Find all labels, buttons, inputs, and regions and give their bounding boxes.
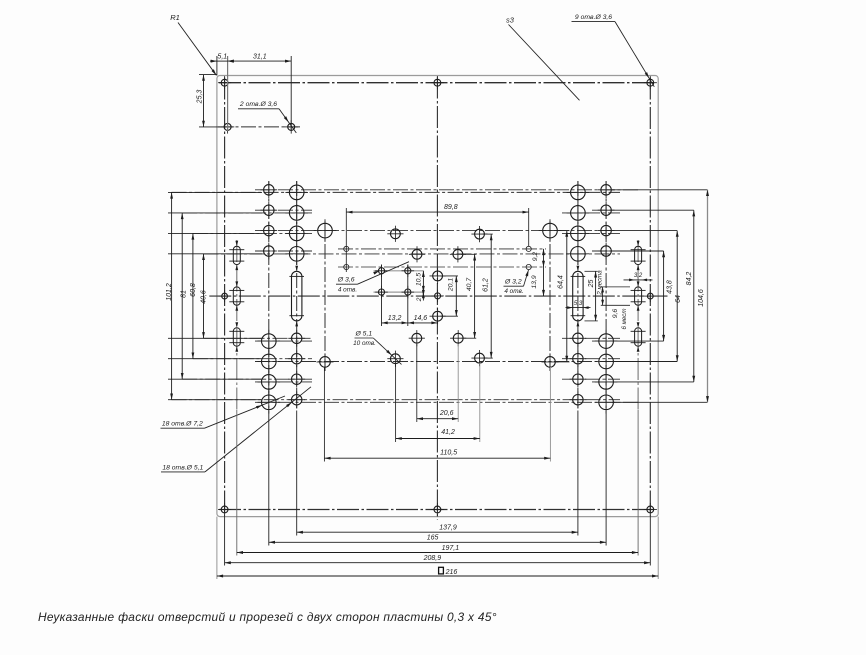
row centerline y=341.1 — [255, 340, 664, 342]
hole D3.2 #1 — [344, 246, 349, 251]
svg-text:Ø 3,2: Ø 3,2 — [504, 279, 522, 286]
dimension 197,1 — [237, 545, 638, 554]
hole D3.6 grid #4 — [402, 286, 415, 299]
svg-text:208,9: 208,9 — [423, 555, 442, 562]
extension line below x=216.9 — [216, 517, 218, 579]
svg-text:10 отв.: 10 отв. — [353, 340, 376, 347]
svg-text:84,2: 84,2 — [686, 272, 693, 286]
extension line left y=253.8 — [168, 253, 262, 255]
dimension 61,2 — [483, 234, 493, 358]
extension line below x=268.8 — [268, 411, 270, 546]
hole D7.2 col268 row5 — [258, 330, 281, 353]
dimension 2 — [416, 290, 425, 302]
hole D5.1 central #2 — [471, 226, 487, 242]
hole D5.1 at (550,361.9) — [542, 353, 559, 370]
row centerline y=230.6 — [255, 230, 677, 232]
dimension 104,6 — [698, 190, 709, 402]
hole D5.1 col296 row8 — [288, 391, 305, 408]
row centerline y=251.0 — [255, 250, 664, 252]
svg-text:Ø 3,6: Ø 3,6 — [337, 277, 355, 284]
label 9 otv D3,6 — [572, 14, 616, 22]
small slot #1 — [229, 241, 244, 270]
leader R1 — [178, 23, 216, 76]
hole D7.2 col606 row8 — [595, 391, 618, 414]
label 18 otv D5,1 — [161, 464, 205, 472]
svg-text:104,6: 104,6 — [698, 289, 705, 307]
dimension 64 — [675, 231, 682, 362]
dimension 89,8 — [346, 204, 528, 214]
dimension 25 (slot) 2 mesta — [585, 270, 604, 321]
centerline column x=268.8 — [268, 181, 270, 411]
svg-text:18 отв.Ø 5,1: 18 отв.Ø 5,1 — [162, 464, 203, 471]
dimension 84,2 — [686, 210, 695, 382]
svg-text:40,7: 40,7 — [466, 278, 473, 291]
svg-text:81: 81 — [180, 290, 187, 298]
centerline column x=325 — [324, 221, 326, 371]
extension line left y=338.3 — [168, 337, 262, 339]
svg-text:4 отв.: 4 отв. — [504, 288, 523, 295]
svg-text:3,2: 3,2 — [634, 273, 643, 279]
hole D7.2 col296 row3 — [285, 222, 308, 245]
hole D7.2 at (325,230.6) — [314, 219, 337, 242]
svg-text:5,3: 5,3 — [574, 301, 583, 307]
row centerline y=253.8 full — [204, 253, 621, 255]
hole D5.1 col578 row6 — [570, 350, 587, 367]
centerline bottom hole row y=509.5 — [219, 509, 656, 511]
svg-text:110,5: 110,5 — [440, 450, 457, 457]
small slot #3 — [229, 322, 244, 351]
hole D5.1 col268 row1 — [260, 181, 277, 198]
extension line x=416.8 down — [416, 344, 418, 422]
hole D7.2 col296 row1 — [285, 181, 308, 204]
centerline hole row y=126.9 (2 holes D3.6) — [218, 126, 300, 128]
dimension 9,2 / 13,9 — [531, 249, 545, 296]
dimension 41,2 — [396, 429, 480, 440]
extension line x=550.4 down — [549, 367, 551, 462]
hole D3.6 at (227.6,126.9) — [221, 120, 234, 133]
hole D5.1 col296 row5 — [288, 330, 305, 347]
grid column centerline x=407.8 — [407, 265, 409, 327]
svg-text:25,3: 25,3 — [196, 90, 203, 105]
hole D5.1 central #10 — [471, 350, 487, 366]
edge hole D3.6 #3 — [644, 76, 657, 89]
hole D5.1 col268 row4 — [260, 243, 277, 260]
edge hole D3.6 #4 — [219, 290, 231, 302]
hole D3.6 at (291.2,126.9) — [285, 120, 298, 133]
leader 9 otv — [615, 22, 654, 87]
dimension 101,2 — [166, 192, 173, 399]
row centerline y=233.4 — [193, 232, 620, 234]
hole D5.1 col296 row7 — [288, 371, 305, 388]
extension line y=74.6 left — [199, 74, 217, 76]
row centerline y=292.1 grid — [374, 291, 424, 293]
label D3,2 4 otv — [504, 270, 529, 295]
svg-text:101,2: 101,2 — [166, 283, 173, 301]
hole D5.1 col268 row2 — [260, 202, 277, 219]
hole D7.2 col268 row7 — [258, 371, 281, 394]
extension line x=324.4 down — [323, 367, 325, 462]
hole D5.1 central #4 — [450, 246, 466, 262]
extension line x=346.3 down — [345, 208, 347, 272]
hole D5.1 central #3 — [409, 246, 425, 262]
row centerline y=267.0 (D3.2 holes) — [338, 266, 546, 268]
dimension 20,6 — [417, 410, 458, 420]
hole D7.2 col578 row1 — [567, 181, 590, 204]
svg-text:60,8: 60,8 — [190, 283, 197, 297]
small slot #6 — [631, 322, 646, 351]
svg-text:2 отв.Ø 3,6: 2 отв.Ø 3,6 — [239, 101, 277, 108]
hole D7.2 col296 row2 — [285, 202, 308, 225]
centerline column x=550 — [549, 221, 551, 371]
note text — [38, 610, 497, 624]
extension line below x=658.2 — [657, 517, 659, 579]
extension line below x=296.7 — [296, 411, 298, 536]
row centerline y=210.2 — [255, 209, 694, 211]
centerline left slot column x=236.8 — [236, 240, 238, 410]
extension line left y=233.4 — [168, 232, 262, 234]
svg-text:43,8: 43,8 — [666, 280, 673, 294]
row centerline y=361.5 — [255, 361, 677, 363]
centerline column x=577.9 — [577, 181, 579, 411]
hole D5.1 central #7 — [409, 330, 425, 346]
horizontal centerline of plate — [209, 295, 667, 297]
svg-text:89,8: 89,8 — [444, 204, 458, 211]
dimension 81 — [180, 213, 187, 379]
label s3 — [506, 15, 515, 24]
center hole D3.6 — [431, 290, 443, 302]
small slot #2 — [229, 281, 244, 310]
hole D7.2 at (550,230.6) — [539, 219, 562, 242]
svg-text:10,5: 10,5 — [416, 273, 423, 286]
dimension 3,2 small slot width — [624, 273, 653, 281]
svg-text:Ø 5,1: Ø 5,1 — [354, 331, 372, 338]
svg-text:9,6: 9,6 — [612, 309, 619, 319]
row centerline y=270.8 grid — [374, 270, 424, 272]
hole D3.2 #3 — [526, 246, 531, 251]
dimension 40,7 — [461, 254, 476, 338]
svg-text:R1: R1 — [170, 13, 180, 22]
extension line x=458.2 down — [457, 344, 459, 422]
hole D7.2 col268 row8 — [258, 391, 281, 414]
row centerline y=338.3 — [204, 337, 621, 339]
label D3,6 4 otv — [336, 262, 409, 294]
svg-text:61,2: 61,2 — [483, 278, 490, 292]
centerline column x=606.1 — [605, 181, 607, 411]
dimension 13,2 — [382, 315, 408, 324]
hole D7.2 col296 row4 — [285, 243, 308, 266]
svg-text:2: 2 — [416, 297, 423, 302]
extension line below x=606.1 — [605, 411, 607, 546]
hole D5.1 central #9 — [387, 351, 403, 367]
hole D5.1 col296 row6 — [288, 350, 305, 367]
row centerline y=402.3 — [255, 401, 708, 403]
row centerline y=358.7 — [193, 358, 620, 360]
leader 18 otv D7,2 — [205, 396, 286, 428]
svg-text:216: 216 — [445, 569, 458, 576]
svg-text:41,2: 41,2 — [441, 429, 455, 436]
dimension 5,1 — [210, 54, 234, 63]
hole D5.1 col268 row3 — [260, 222, 277, 239]
svg-text:137,9: 137,9 — [439, 525, 457, 532]
hole D5.1 central #5 — [430, 268, 446, 284]
small slot #5 — [631, 281, 646, 310]
dimension 40,6 — [201, 254, 208, 338]
row centerline y=192.4 full — [172, 191, 620, 193]
centerline right slot column x=638.1 — [637, 240, 639, 410]
svg-text:20,1: 20,1 — [448, 278, 455, 292]
edge hole D3.6 #7 — [431, 503, 444, 516]
extension line y=126.9 left — [199, 126, 224, 128]
dimension 9,6 slot length — [601, 287, 630, 305]
hole D7.2 col578 row2 — [567, 202, 590, 225]
extension line below x=224.6 — [224, 515, 226, 566]
hole D3.2 #2 — [344, 264, 349, 269]
hole D7.2 col606 row5 — [595, 330, 618, 353]
label D5,1 10 otv — [353, 331, 401, 365]
hole D3.6 grid #1 — [375, 265, 388, 278]
hole D7.2 col268 row6 — [258, 350, 281, 373]
extension line left y=399.7 — [168, 399, 262, 401]
hole D7.2 col606 row6 — [595, 350, 618, 373]
centerline right edge-hole column x=650.3 — [649, 78, 651, 515]
dimension 165 — [269, 535, 606, 544]
extension line x=291.2 above plate — [290, 56, 292, 131]
leader 18 otv D5,1 — [205, 387, 311, 472]
leader s3 — [509, 25, 580, 101]
label 18 otv D7,2 — [161, 421, 205, 429]
dimension 64,4 — [556, 231, 570, 362]
svg-text:9,2: 9,2 — [532, 252, 539, 262]
hole D5.1 at (325,361.9) — [317, 353, 334, 370]
svg-text:25: 25 — [588, 280, 595, 289]
extension line left y=379.2 — [168, 378, 262, 380]
dimension 31,1 — [228, 54, 292, 63]
row centerline y=189.8 — [255, 189, 708, 191]
hole D3.6 grid #3 — [375, 286, 388, 299]
svg-text:4 отв.: 4 отв. — [338, 286, 357, 293]
dimension 5,3 right slot — [566, 301, 591, 309]
edge hole D3.6 #2 — [431, 76, 444, 89]
extension line below x=577.9 — [577, 411, 579, 536]
hole D7.2 col578 row4 — [567, 243, 590, 266]
slot arc-center ticks x=577.9 — [571, 266, 586, 327]
svg-text:13,9: 13,9 — [531, 275, 538, 288]
hole D5.1 col578 row8 — [570, 391, 587, 408]
extension line below x=236.8 — [236, 410, 238, 556]
dimension square 216 — [217, 567, 658, 577]
hole D5.1 col606 row3 — [598, 222, 615, 239]
svg-text:13,2: 13,2 — [388, 315, 402, 322]
row centerline y=399.7 full — [172, 399, 620, 401]
svg-text:s3: s3 — [506, 15, 515, 24]
hole D5.1 col578 row5 — [570, 330, 587, 347]
svg-text:64,4: 64,4 — [558, 275, 565, 289]
svg-text:165: 165 — [427, 535, 439, 542]
row centerline y=248.9 (D3.2 holes) — [338, 248, 546, 250]
label R1 — [170, 13, 180, 22]
dimension 60,8 — [190, 233, 197, 358]
svg-text:14,6: 14,6 — [414, 315, 428, 322]
hole D7.2 col578 row3 — [567, 222, 590, 245]
dimension 25,3 — [196, 75, 205, 127]
dimension 110,5 — [324, 450, 550, 460]
label 9,6 6 mest — [612, 308, 628, 329]
hole D3.2 #4 — [526, 264, 531, 269]
edge hole D3.6 #6 — [218, 503, 231, 516]
hole D5.1 col606 row4 — [598, 243, 615, 260]
extension line left y=212.9 — [168, 212, 262, 214]
dimension 43,8 — [662, 251, 673, 341]
extension line x=395.6 down — [395, 364, 397, 442]
centerline left edge-hole column x=224.6 — [224, 78, 226, 515]
svg-text:40,6: 40,6 — [201, 290, 208, 304]
grid column centerline x=381.5 — [381, 265, 383, 327]
dimension 137,9 — [297, 525, 578, 534]
hole D5.1 central #8 — [450, 330, 466, 346]
extension line x=227.6 above plate — [227, 56, 229, 131]
central slot right (5.1x25) — [573, 271, 583, 321]
svg-text:20,6: 20,6 — [439, 410, 454, 417]
row centerline y=379.2 — [182, 378, 620, 380]
svg-text:197,1: 197,1 — [442, 545, 460, 552]
leader 2 otv — [279, 109, 296, 133]
extension line x=528.7 down — [528, 208, 530, 246]
slot arc-center ticks x=296.7 — [289, 266, 304, 327]
row centerline y=381.9 — [255, 381, 694, 383]
svg-text:5,1: 5,1 — [217, 54, 227, 61]
edge hole D3.6 #8 — [644, 503, 657, 516]
small slot #4 — [631, 241, 646, 270]
label 2 otv D3,6 — [238, 101, 279, 109]
centerline top hole row y=82.7 — [219, 82, 656, 84]
svg-text:31,1: 31,1 — [253, 54, 267, 61]
extension line x=479.8 down — [479, 363, 481, 442]
dimension 10,5 — [416, 271, 425, 292]
edge hole D3.6 #1 — [218, 76, 231, 89]
central slot left (5.1x25) — [292, 271, 302, 321]
plate outline (216x216 square, R1 corners) — [217, 76, 658, 517]
extension line below x=650.3 — [649, 515, 651, 566]
hole D5.1 col606 row2 — [598, 202, 615, 219]
hole D5.1 col578 row7 — [570, 371, 587, 388]
extension line x=216.9 above plate — [216, 56, 218, 76]
vertical centerline of plate — [436, 77, 438, 520]
extension line left y=192.4 — [168, 191, 262, 193]
svg-text:9 отв.Ø 3,6: 9 отв.Ø 3,6 — [575, 14, 612, 21]
svg-text:18 отв.Ø 7,2: 18 отв.Ø 7,2 — [162, 421, 203, 428]
hole D7.2 col606 row7 — [595, 371, 618, 394]
hole D5.1 col606 row1 — [598, 181, 615, 198]
row centerline y=212.9 — [182, 212, 620, 214]
edge hole D3.6 #5 — [644, 290, 656, 302]
hole D5.1 central #6 — [430, 308, 446, 324]
dimension 208,9 — [225, 555, 651, 564]
svg-text:Неуказанные фаски отверстий и: Неуказанные фаски отверстий и прорезей с… — [38, 610, 497, 624]
extension line below x=638.1 — [637, 410, 639, 556]
centerline column x=296.7 — [296, 181, 298, 411]
extension line left y=358.7 — [168, 358, 262, 360]
hole D3.6 grid #2 — [402, 265, 415, 278]
hole D5.1 central #1 — [387, 226, 403, 242]
dimension 20,1 — [441, 276, 459, 316]
svg-text:6 мест: 6 мест — [621, 308, 628, 329]
dimension 14,6 — [408, 315, 438, 324]
svg-text:64: 64 — [675, 295, 682, 303]
